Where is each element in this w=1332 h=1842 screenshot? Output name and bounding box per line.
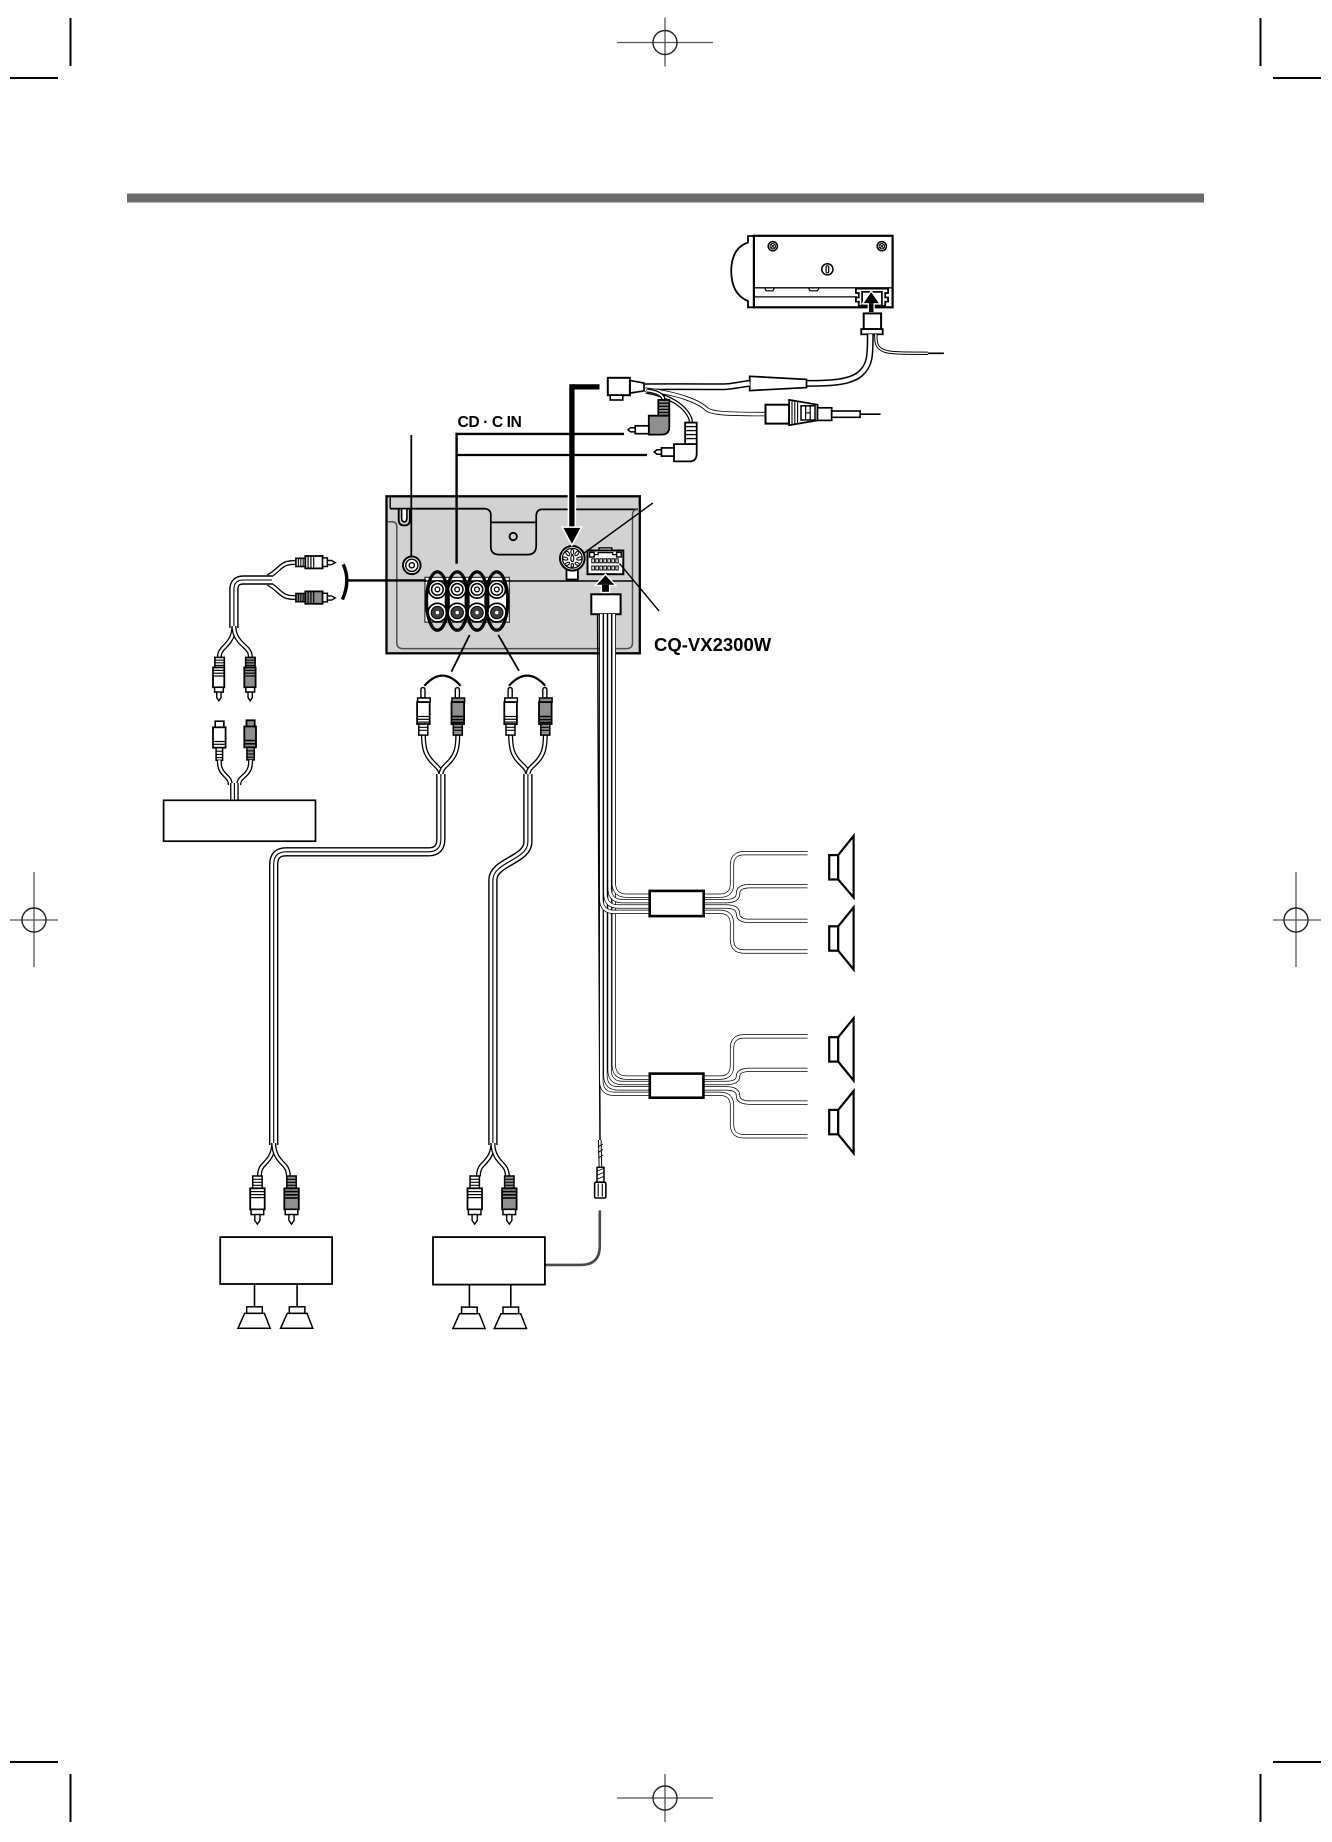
cooling notch in top strip <box>485 509 541 555</box>
DIN socket (CD-C IN) <box>560 546 585 580</box>
gray right-angle RCA plug (CD-C cord) <box>628 400 669 435</box>
CD changer cord plug <box>861 313 883 334</box>
white RCA plug (pointing down) <box>213 657 224 700</box>
left amp speaker R (cone) <box>281 1307 313 1328</box>
inner recessed panel outline <box>388 510 638 649</box>
pair2 white RCA plug (pointing up) <box>504 688 517 736</box>
crop mark top-right <box>1261 18 1322 78</box>
CD changer main cord <box>807 334 871 383</box>
crop mark bottom-left <box>10 1762 71 1822</box>
antenna jack leader line <box>410 435 412 556</box>
CD changer screw right <box>877 242 886 251</box>
white RCA jack (pointing up) <box>213 721 226 760</box>
registration mark top-center <box>617 18 713 67</box>
svg-text:CQ-VX2300W: CQ-VX2300W <box>654 634 772 655</box>
diagonal leader to cable arc 1 <box>451 635 469 672</box>
right amp gray RCA plug (down) <box>502 1176 516 1224</box>
ground wire stripped end <box>598 1140 603 1167</box>
svg-text:CD · C IN: CD · C IN <box>458 414 522 431</box>
CD changer connector cutout <box>856 289 888 306</box>
registration mark right-center <box>1273 872 1321 967</box>
horizontal line across jack area <box>425 580 633 582</box>
cable from horizontal plugs (merged cord, goes left then down) <box>219 562 296 657</box>
CD changer cord DIN plug <box>608 378 644 400</box>
arrow into CD changer connector <box>864 292 879 312</box>
registration mark left-center <box>10 872 58 967</box>
thick leader from DIN plug (L-shape) <box>563 384 599 544</box>
diagonal leader to cable arc 2 <box>498 635 519 671</box>
up arrow into harness connector <box>597 575 614 591</box>
diagonal leader to harness connector <box>620 564 660 612</box>
antenna adapter plug <box>766 400 881 425</box>
crop mark top-left <box>10 18 71 78</box>
cable to white RCA elbow plug <box>646 392 691 424</box>
gray RCA plug (pointing down) <box>244 657 255 700</box>
upper junction box <box>650 891 704 916</box>
RCA jack panel <box>425 577 510 622</box>
RCA jacks bottom row <box>428 603 506 622</box>
gray RCA plug (horizontal, into unit) <box>296 591 335 603</box>
cable arc 2 (rear RCA pair) <box>509 676 545 686</box>
harness wires to upper junction box <box>601 614 650 912</box>
screw hole in notch <box>510 533 517 540</box>
pair1 gray RCA plug (pointing up) <box>452 688 465 736</box>
gray RCA jack (pointing up) <box>244 720 256 760</box>
CD changer screw left <box>768 242 777 251</box>
right amplifier box <box>433 1237 545 1285</box>
ground terminal plug <box>595 1167 606 1198</box>
speaker 4 (rear right lower) <box>829 1091 853 1153</box>
speaker 2 (front right lower) <box>829 907 853 969</box>
right amp white RCA plug (down) <box>468 1176 483 1224</box>
right amp speaker R (cone) <box>494 1307 526 1328</box>
arc at unit RCA jacks <box>342 564 346 599</box>
bracket slot <box>399 509 410 525</box>
speaker 3 (rear right) <box>829 1018 853 1080</box>
left amp white RCA plug (down) <box>250 1176 265 1224</box>
head unit rear panel <box>387 496 640 653</box>
RCA jacks top row <box>429 581 506 598</box>
harness connector block <box>591 594 620 614</box>
right amp speaker wires <box>468 1285 470 1308</box>
speaker 1 (front right) <box>829 836 853 898</box>
section title bar <box>127 194 1204 203</box>
lower junction box <box>650 1074 704 1098</box>
CD-C IN leader lines <box>456 433 647 564</box>
thick line from arc into unit <box>348 579 427 581</box>
cord from taper to DIN plug <box>645 383 750 386</box>
pair 2 cord (down, jog left, to right amp) <box>478 734 545 1177</box>
white right-angle RCA plug (CD-C cord) <box>654 423 697 462</box>
CD changer center screw <box>822 264 833 275</box>
wire from changer plug (thin, to open end) <box>876 334 944 353</box>
wiring harness connector (16-pin) <box>588 548 624 574</box>
cord taper sleeve <box>750 376 807 390</box>
pair2 gray RCA plug (pointing up) <box>539 688 552 736</box>
left amp speaker L (cone) <box>238 1307 270 1328</box>
CD changer unit (bottom view) <box>731 236 892 307</box>
power lead curve to right amplifier <box>546 1210 600 1265</box>
relay box <box>164 800 316 841</box>
ground lead wire (to small terminal) <box>598 614 600 1140</box>
cables from jacks into relay box <box>219 760 250 801</box>
crop mark bottom-right <box>1261 1762 1322 1822</box>
left amplifier box <box>220 1237 332 1284</box>
diagonal leader to DIN socket <box>584 503 653 554</box>
pair 1 cord (down, jog left, to left amp) <box>259 734 457 1177</box>
pair1 white RCA plug (pointing up) <box>417 688 430 736</box>
right amp speaker L (cone) <box>453 1307 485 1328</box>
left amp gray RCA plug (down) <box>284 1176 299 1224</box>
cable arc 1 (front RCA pair) <box>424 676 460 686</box>
registration mark bottom-center <box>617 1774 713 1822</box>
white RCA plug (horizontal, into unit) <box>296 556 335 568</box>
left amp speaker wires <box>254 1284 256 1307</box>
cable to gray RCA elbow plug <box>647 391 664 401</box>
antenna jack <box>403 557 421 575</box>
speaker wires from lower junction box <box>702 1036 808 1136</box>
jack-pair ellipses <box>427 572 508 630</box>
cable to antenna adapter <box>645 390 766 415</box>
speaker wires from upper junction box <box>702 853 808 951</box>
harness wires to lower junction box <box>601 614 651 1094</box>
